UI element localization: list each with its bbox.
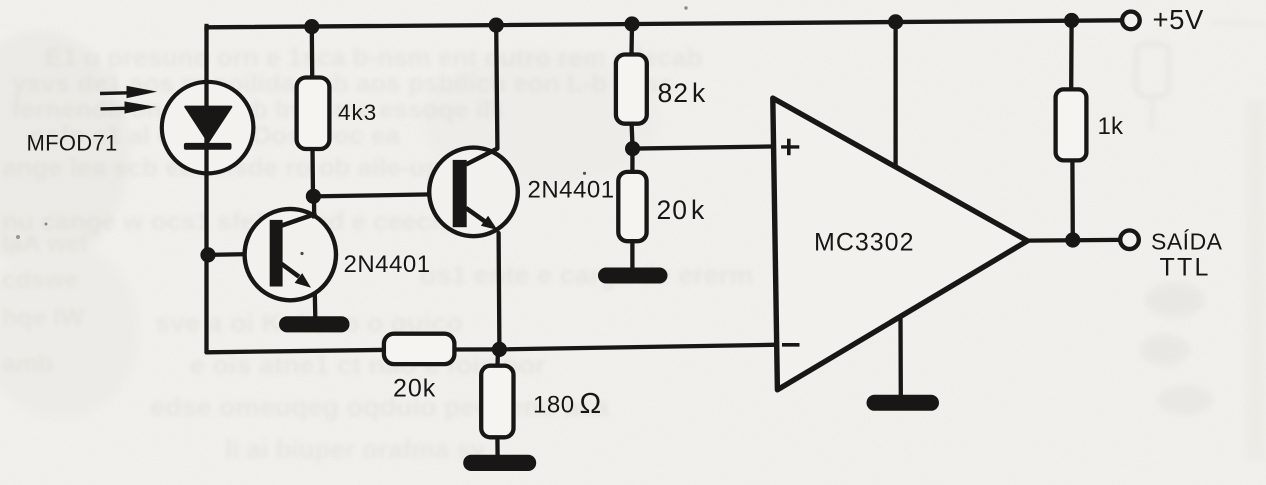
svg-text:TTL: TTL	[1160, 254, 1211, 282]
wire: op-amp ground pin	[898, 316, 903, 397]
svg-text:li ai biuper orafma sv: li ai biuper orafma sv	[225, 434, 486, 464]
ground G1 (Q1 emitter)	[279, 316, 350, 332]
wire: 82k top feed	[629, 24, 634, 55]
svg-text:4k3: 4k3	[338, 100, 377, 125]
svg-text:2N4401: 2N4401	[344, 251, 431, 278]
svg-text:1k: 1k	[1098, 113, 1125, 140]
scan speck	[300, 252, 303, 255]
wire: Q2 collector drop from rail	[496, 25, 497, 148]
resistor R5 180 ohm	[481, 366, 513, 438]
resistor R1 4k3	[297, 78, 330, 150]
wire: 20k to node C	[454, 347, 499, 351]
resistor R4 20k horizontal	[384, 334, 455, 364]
scan speck	[16, 235, 20, 239]
svg-text:cdswe: cdswe	[2, 266, 79, 294]
resistor R3 20k vertical	[618, 172, 646, 241]
photodiode D1 MFOD71	[162, 82, 254, 174]
svg-text:2N4401: 2N4401	[528, 177, 615, 204]
svg-text:SAÍDA: SAÍDA	[1151, 229, 1223, 255]
label MFOD71	[27, 131, 118, 156]
light arrow 1	[100, 86, 157, 98]
ghost show-through text layer	[2, 42, 753, 464]
label MC3302	[814, 229, 915, 257]
svg-text:laA wel: laA wel	[2, 230, 87, 258]
wire: 180 ohm to ground	[495, 437, 500, 457]
terminal +5V	[1122, 12, 1140, 30]
wire: node D to op-amp non-inverting input	[633, 146, 778, 148]
junction node on rail at R1	[304, 19, 319, 34]
ground G4 (op-amp)	[867, 395, 940, 411]
light arrow 2	[101, 101, 157, 113]
wire: Q1 base lead	[208, 254, 270, 255]
wire: node C to op-amp inverting input	[499, 345, 778, 350]
wire: 82k bottom to node D	[632, 124, 633, 149]
transistor Q2 2N4401	[429, 148, 518, 237]
scan speck	[684, 6, 687, 9]
wire: top +5V rail	[207, 20, 1122, 27]
ground G3 (R5)	[463, 455, 536, 471]
label +5V	[1153, 4, 1205, 35]
wire: 1k top feed	[1069, 21, 1074, 90]
svg-text:MFOD71: MFOD71	[27, 131, 118, 156]
label 82k	[658, 78, 707, 108]
wire: Q1 emitter drop	[313, 293, 318, 319]
svg-text:MC3302: MC3302	[814, 229, 915, 257]
wire: 20k vertical feed from node D	[630, 149, 634, 172]
label 1k	[1098, 113, 1125, 140]
transistor Q1 2N4401	[245, 196, 336, 300]
svg-text:hqe lW: hqe lW	[2, 304, 84, 332]
wire: node A to Q2 base	[313, 194, 453, 196]
wire: left vertical (photodiode branch)	[204, 27, 208, 352]
scan speck	[583, 172, 586, 175]
ghost resistor shape right	[1136, 22, 1266, 460]
wire: R1 top feed	[310, 27, 315, 76]
label 2N4401 (Q2)	[528, 177, 615, 204]
wire: 1k bottom to output node	[1070, 160, 1075, 240]
junction node A (R1/Q1 collector/Q2 base)	[306, 189, 321, 204]
wire: op-amp V+ pin	[893, 22, 897, 169]
label 20k (R3)	[657, 195, 706, 225]
label 4k3	[338, 100, 377, 125]
svg-text:20k: 20k	[657, 195, 706, 225]
junction node on rail at 1k	[1064, 13, 1079, 28]
svg-text:amb: amb	[2, 350, 53, 378]
junction node E (output/1k)	[1065, 232, 1080, 247]
svg-text:20k: 20k	[393, 375, 436, 403]
wire: bottom left horizontal to 20k	[207, 350, 384, 352]
junction node on rail at 82k	[624, 16, 639, 31]
label 180 ohm	[533, 388, 602, 420]
label SAIDA	[1151, 229, 1223, 255]
label 2N4401 (Q1)	[344, 251, 431, 278]
junction node C (Q2 emitter/20k/180)	[492, 342, 507, 357]
svg-text:180Ω: 180Ω	[533, 388, 602, 420]
ground G2 (R3)	[598, 268, 668, 284]
wire: Q2 emitter down to node C	[496, 233, 501, 349]
label TTL	[1160, 254, 1211, 282]
wire: corner overshoot tick	[204, 24, 208, 31]
wire: R1 bottom to node A	[310, 147, 315, 196]
resistor R6 1k	[1056, 89, 1087, 160]
terminal SAIDA TTL	[1120, 230, 1139, 249]
op-amp U1 MC3302	[773, 98, 1028, 390]
junction node D (82k/20k divider)	[625, 141, 640, 156]
junction node B (Q1 base)	[200, 247, 215, 262]
scan speck	[45, 223, 48, 226]
wire: 180 ohm top feed from node C	[495, 349, 500, 366]
junction node on rail at Q2 collector	[489, 18, 504, 33]
wire: 20k vertical to ground	[630, 241, 634, 269]
svg-text:+5V: +5V	[1153, 4, 1205, 35]
junction node on rail at op-amp V+	[888, 14, 903, 29]
resistor R2 82k	[616, 55, 647, 124]
label 20k (R4)	[393, 375, 436, 403]
wire: op-amp output to SAIDA	[1027, 238, 1120, 243]
svg-text:os1 ente e carga de ererm: os1 ente e carga de ererm	[420, 260, 753, 290]
svg-text:82k: 82k	[658, 78, 707, 108]
